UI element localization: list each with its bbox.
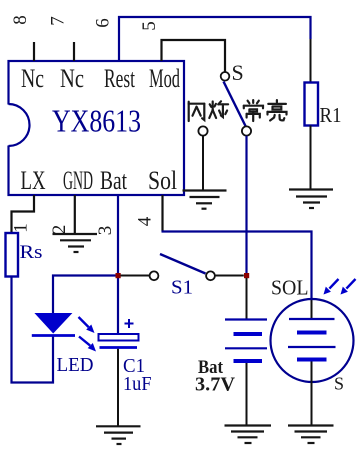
- label 闪 (flash): [189, 102, 205, 121]
- wire node to S1 left contact: [121, 275, 150, 277]
- svg-text:Rs: Rs: [20, 242, 43, 263]
- wire R1 bottom: [310, 126, 312, 190]
- ground under SOL: [288, 426, 334, 444]
- wire pin 1 to Rs: [12, 195, 35, 233]
- svg-text:4: 4: [135, 216, 156, 226]
- svg-text:YX8613: YX8613: [52, 103, 141, 139]
- junction node dot (LED/C1/Bat): [116, 273, 121, 278]
- wire 常亮 contact down to node: [245, 136, 247, 276]
- wire LED branch: [53, 276, 118, 314]
- LED light arrow 2: [79, 337, 96, 352]
- wire S1 right contact to node: [215, 275, 244, 277]
- switch S blade: [224, 82, 247, 128]
- wire pin 8 stub: [33, 42, 35, 61]
- resistor R1: [305, 83, 319, 126]
- svg-text:R1: R1: [320, 103, 342, 127]
- ground under C1: [96, 426, 141, 444]
- wire pin 3 Bat down to C1: [117, 195, 119, 334]
- wire pin 7 stub: [73, 42, 75, 61]
- capacitor C1 plus sign: [125, 319, 134, 328]
- svg-text:8: 8: [10, 15, 31, 25]
- svg-text:3: 3: [95, 226, 116, 236]
- svg-text:Bat: Bat: [100, 166, 128, 195]
- ground under 闪烁 contact: [183, 191, 227, 209]
- svg-text:S: S: [232, 60, 244, 85]
- switch S common contact: [221, 72, 230, 81]
- svg-text:1: 1: [11, 223, 32, 233]
- wire pin 4 to SOL cell: [162, 232, 312, 300]
- svg-text:Rest: Rest: [104, 64, 136, 93]
- capacitor C1 top plate: [99, 334, 139, 341]
- wire pin 4 Sol stub: [161, 195, 163, 232]
- svg-text:1uF: 1uF: [123, 373, 152, 395]
- SOL light arrow 2: [341, 279, 356, 295]
- svg-text:LED: LED: [57, 354, 94, 376]
- wire pin 5 to switch S: [162, 40, 226, 72]
- wire SOL bottom to ground: [311, 362, 313, 426]
- contact 闪烁 circle: [198, 126, 207, 135]
- svg-text:Sol: Sol: [148, 166, 177, 195]
- label 亮 (bright): [268, 100, 287, 120]
- wire C1 to ground: [117, 349, 119, 426]
- junction node dot (S1/Bat/常亮): [244, 273, 249, 278]
- svg-text:GND: GND: [63, 166, 93, 195]
- resistor Rs: [6, 233, 19, 277]
- svg-text:6: 6: [93, 18, 114, 28]
- SOL light arrow 1: [324, 279, 339, 295]
- switch S1 right contact: [206, 271, 215, 280]
- op-amp U1 body YX8613: [6, 61, 184, 195]
- wire node to battery: [246, 278, 248, 319]
- wire into SOL top plate: [311, 299, 313, 319]
- contact 常亮 circle: [242, 126, 251, 135]
- battery Bat plates: [225, 320, 267, 362]
- wire pin 6 to R1 top: [119, 17, 311, 61]
- svg-text:2: 2: [49, 225, 70, 235]
- svg-text:SOL: SOL: [271, 276, 309, 300]
- ground under R1: [289, 190, 333, 209]
- ground under pin 2: [53, 234, 98, 252]
- wire Rs bottom to LED cathode: [12, 277, 54, 383]
- svg-text:Nc: Nc: [60, 64, 84, 93]
- svg-text:LX: LX: [21, 166, 46, 195]
- wire 闪烁 contact to ground: [202, 136, 204, 191]
- svg-text:S1: S1: [171, 277, 193, 299]
- switch S1 left contact: [150, 271, 159, 280]
- switch S1 blade: [160, 254, 206, 274]
- wire R1 upper black: [310, 39, 312, 83]
- LED cathode bar: [32, 334, 75, 337]
- capacitor C1 bottom plate: [100, 346, 138, 349]
- solar cell SOL circle: [271, 299, 354, 382]
- svg-text:7: 7: [48, 16, 69, 26]
- LED anode triangle: [34, 313, 72, 334]
- LED light arrow 1: [79, 317, 95, 333]
- ground under battery: [225, 426, 272, 444]
- svg-text:3.7V: 3.7V: [195, 374, 236, 396]
- svg-text:Nc: Nc: [21, 64, 44, 93]
- label 常 (steady): [244, 100, 263, 121]
- wire pin 2 to ground: [74, 195, 76, 234]
- svg-text:S: S: [334, 374, 344, 394]
- label 烁 (flash 2nd char): [209, 101, 228, 118]
- svg-text:5: 5: [139, 21, 160, 31]
- svg-text:Mod: Mod: [149, 64, 180, 93]
- wire battery to ground: [246, 363, 248, 426]
- SOL internal plates: [288, 319, 336, 360]
